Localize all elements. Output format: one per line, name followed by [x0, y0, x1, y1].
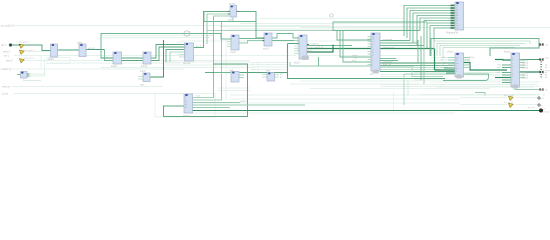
wire B9a right stubs [239, 75, 244, 78]
wire B6 out down to B7b [237, 12, 265, 39]
wire B12 bottom to output y89.5 [515, 88, 540, 90]
wire B13 right outputs [193, 103, 306, 108]
wire B7a out2 [239, 41, 264, 44]
wire B7a left stubs [227, 42, 231, 47]
wire loop below B11 [443, 74, 489, 81]
svg-text:ctrl: ctrl [370, 73, 374, 76]
wire elbow to B5 pin3 [166, 50, 185, 63]
text labels left column [1, 24, 14, 95]
wire B15 right faint loop [24, 69, 45, 81]
svg-text:pcreg: pcreg [183, 114, 189, 117]
wire B3 to B4 second [122, 60, 144, 62]
wire B10 left pin stubs [368, 37, 372, 65]
wire x213 vertical mid [213, 16, 215, 98]
wire y30.5 mid extension [207, 30, 333, 32]
small oval near x331 [330, 14, 334, 17]
wire vertical x318 [318, 57, 320, 66]
subcircuit B7a [231, 35, 239, 50]
faint background bus lines [12, 19, 550, 118]
subcircuit B5 [185, 43, 194, 61]
wire B15 left stub [17, 74, 21, 76]
output circle halt [538, 97, 540, 99]
svg-text:d_out: d_out [2, 92, 8, 95]
output circle err [538, 104, 540, 106]
svg-text:step 0: step 0 [6, 59, 13, 62]
wire B13 left loop bottom [164, 64, 248, 117]
wire into B3 [101, 57, 113, 59]
svg-text:pcadd: pcadd [229, 4, 236, 6]
wire B8 out main bus y48.5 to B10 [307, 48, 371, 50]
svg-text:d: d [372, 65, 373, 67]
wire corner x412 y78 [407, 79, 409, 96]
gate oval above B5 [184, 31, 190, 36]
wire B4 out elbow up to B5 pin2 [151, 47, 185, 61]
subcircuit B1 [51, 44, 58, 57]
svg-text:alu_out[31:0]: alu_out[31:0] [310, 46, 323, 49]
output pin glyph y57.5 [540, 58, 544, 61]
text B10 left pin wire labels [352, 54, 358, 62]
pin arrows RF1 [451, 5, 455, 29]
svg-text:regwrite wd: regwrite wd [383, 46, 395, 49]
wire staircase mid [240, 72, 288, 74]
svg-text:clkdiv: clkdiv [48, 59, 55, 61]
svg-text:pc[31:0]: pc[31:0] [240, 101, 248, 103]
subcircuit B8 ALU [299, 35, 309, 60]
text wire annotations mid [88, 38, 395, 103]
output pin glyph y89.5 [540, 88, 544, 91]
text B11 B12 side labels [441, 56, 548, 79]
wire B6 second input stub [207, 14, 230, 44]
wire B7b out elbow over to B8 [272, 34, 299, 39]
wire corner x404 y74 [403, 74, 405, 105]
svg-text:instr[31:0]: instr[31:0] [1, 68, 11, 71]
wire y30.5 right [333, 30, 420, 32]
subcircuit B10 control [371, 33, 380, 74]
wire B2 to junction column x101 [86, 49, 105, 51]
wire into B12 thick y59.5 [495, 59, 511, 62]
wire B10 outputs lower long [380, 59, 455, 72]
subcircuit RF1 register file [455, 2, 464, 30]
wire big loop right top [431, 39, 539, 57]
wire B14 left stubs [138, 77, 143, 80]
wire B15 right stubs [27, 74, 31, 76]
wire loop corner bottom right [475, 93, 485, 96]
wire B9 stubs [262, 75, 279, 78]
gate G1 yellow [19, 44, 24, 48]
pin marks B15 [27, 74, 29, 75]
svg-text:out: out [545, 44, 548, 47]
svg-text:rs: rs [372, 43, 374, 46]
svg-text:fetch2: fetch2 [141, 65, 148, 68]
svg-text:edge: edge [77, 42, 83, 44]
wire B8 out y45.5 [307, 45, 352, 47]
svg-text:re: re [456, 64, 458, 67]
wire B12 right stubs [520, 60, 526, 78]
svg-text:alu32: alu32 [294, 62, 300, 64]
text right edge outputs [528, 44, 550, 114]
svg-text:imem: imem [140, 71, 146, 73]
svg-text:wback: wback [504, 51, 511, 53]
wire B4 out elbow up to B5 pin1 [151, 45, 185, 59]
subcircuit B9 [267, 73, 275, 82]
text component captions [48, 4, 511, 118]
wire thick verticals left of B11 [418, 36, 435, 84]
wire verticals feeding B10 [337, 31, 371, 62]
wire B14 out up x163 [150, 40, 164, 77]
wire into B12 thick y77.5 [495, 77, 511, 79]
wire B10 output main bus right [380, 48, 435, 50]
svg-text:err: err [540, 104, 543, 107]
wire B11 right stubs [464, 58, 471, 68]
svg-text:imm: imm [266, 71, 270, 73]
svg-text:res[31:0]: res[31:0] [310, 43, 319, 46]
wire B8 out thick y52 [307, 45, 333, 53]
svg-text:r3[31:0]: r3[31:0] [521, 67, 528, 70]
svg-text:sxt: sxt [280, 73, 283, 76]
subcircuit B6 adder [228, 6, 239, 18]
wire B6 bottom stub [232, 17, 234, 22]
svg-text:halt_sig 0: halt_sig 0 [504, 94, 514, 97]
subcircuit B14 [143, 73, 150, 82]
svg-text:pc_out[31:0]: pc_out[31:0] [1, 24, 14, 27]
svg-text:fetch1: fetch1 [111, 65, 118, 68]
output pin glyph y70 [540, 71, 544, 74]
wire B11 right thick elbow [464, 63, 508, 71]
wire y22 to fan [333, 22, 427, 31]
wire elbow to B5 pin4 [170, 52, 185, 62]
wire junction spur y72 [205, 72, 214, 74]
svg-text:rst_sync 0: rst_sync 0 [25, 49, 36, 52]
svg-text:pc+4: pc+4 [196, 46, 202, 48]
wire elbow x221 to B7a [214, 34, 232, 40]
wire staircase source from left [214, 72, 232, 74]
wire B8 left stubs [294, 41, 299, 54]
subcircuit B7b [263, 33, 273, 46]
wire nested loops right [434, 41, 530, 57]
wire B12 out to output y57.5 [520, 59, 541, 61]
subcircuit B9a [231, 72, 239, 83]
svg-text:next: next [196, 95, 201, 98]
wire B5 stubs lower [179, 54, 185, 56]
subcircuit B3 [113, 52, 122, 64]
svg-text:co: co [297, 49, 299, 51]
svg-text:decode: decode [183, 63, 191, 65]
svg-text:clk: clk [456, 28, 458, 30]
wire vertical feedback x101 [101, 34, 214, 59]
subcircuit B4 [143, 52, 151, 64]
wire B12 right to output y70 [520, 71, 541, 73]
svg-text:reset 0: reset 0 [3, 50, 11, 53]
wire B13 out up x213 [193, 16, 230, 98]
output pin glyph y44.5 [540, 43, 544, 46]
gate G5 yellow right [509, 103, 514, 107]
output pin circle y110.5 [539, 109, 543, 113]
gate G3 yellow [20, 59, 25, 63]
gate G2 yellow [20, 50, 25, 54]
subcircuit B15 imem port [21, 72, 28, 79]
subcircuit B13 [184, 94, 193, 113]
wire B2 branch down to B3 lower pin [105, 50, 114, 61]
wire fan elbows into RF1 [404, 6, 451, 57]
text pin rows inside tall boxes [185, 5, 514, 109]
gate G4 yellow right [509, 96, 514, 100]
svg-text:imm_sel: imm_sel [383, 64, 392, 66]
wire B7a out to B7b [239, 38, 264, 40]
svg-text:[31:0]: [31:0] [544, 112, 550, 114]
svg-text:mem_in: mem_in [2, 86, 11, 88]
svg-text:clk 0: clk 0 [1, 45, 6, 47]
svg-text:clk_gate 1: clk_gate 1 [19, 40, 30, 43]
svg-text:err_sig 0: err_sig 0 [504, 101, 513, 104]
wire clk input run [12, 45, 51, 51]
wire B13 main output bottom bus [193, 110, 541, 112]
svg-text:rd: rd [372, 48, 374, 51]
svg-text:halt: halt [540, 97, 544, 100]
wire B3 to B4 [122, 57, 144, 59]
svg-text:memread: memread [383, 38, 393, 41]
svg-text:r6[31:0]: r6[31:0] [521, 77, 528, 80]
input pin clk [9, 44, 12, 47]
svg-text:sext: sext [229, 69, 234, 72]
wire B12 left stubs [502, 65, 511, 83]
svg-text:pc_cur: pc_cur [528, 106, 535, 109]
svg-text:RegisterFile: RegisterFile [446, 31, 459, 34]
svg-text:mux3: mux3 [263, 48, 269, 50]
wire into B11 thick y70 [435, 69, 456, 71]
wire long pc bus from B13 up and across y21.5 [193, 22, 222, 101]
svg-text:rom: rom [140, 83, 144, 86]
wire B1 to B2 [58, 49, 80, 51]
svg-text:step_en 0: step_en 0 [24, 56, 34, 59]
wire B5 output up to adder B6 [194, 12, 231, 48]
svg-text:dmem: dmem [447, 51, 453, 53]
wire B10 outputs upper [380, 41, 424, 46]
wire B6 loop bottom [204, 12, 256, 22]
svg-text:mux2: mux2 [230, 52, 236, 54]
svg-text:run 1: run 1 [4, 54, 10, 57]
svg-text:q[31:0]: q[31:0] [88, 48, 95, 50]
subcircuit B11 [455, 53, 464, 79]
subcircuit B2 [79, 44, 86, 57]
text gate annotations [19, 40, 514, 104]
wire B11 left stubs [444, 68, 455, 73]
wire mid loop y66 [290, 62, 414, 66]
svg-text:add4: add4 [228, 19, 234, 21]
svg-text:q: q [456, 71, 457, 73]
subcircuit B12 [511, 53, 520, 89]
wire elbow y48 to right [490, 45, 539, 57]
